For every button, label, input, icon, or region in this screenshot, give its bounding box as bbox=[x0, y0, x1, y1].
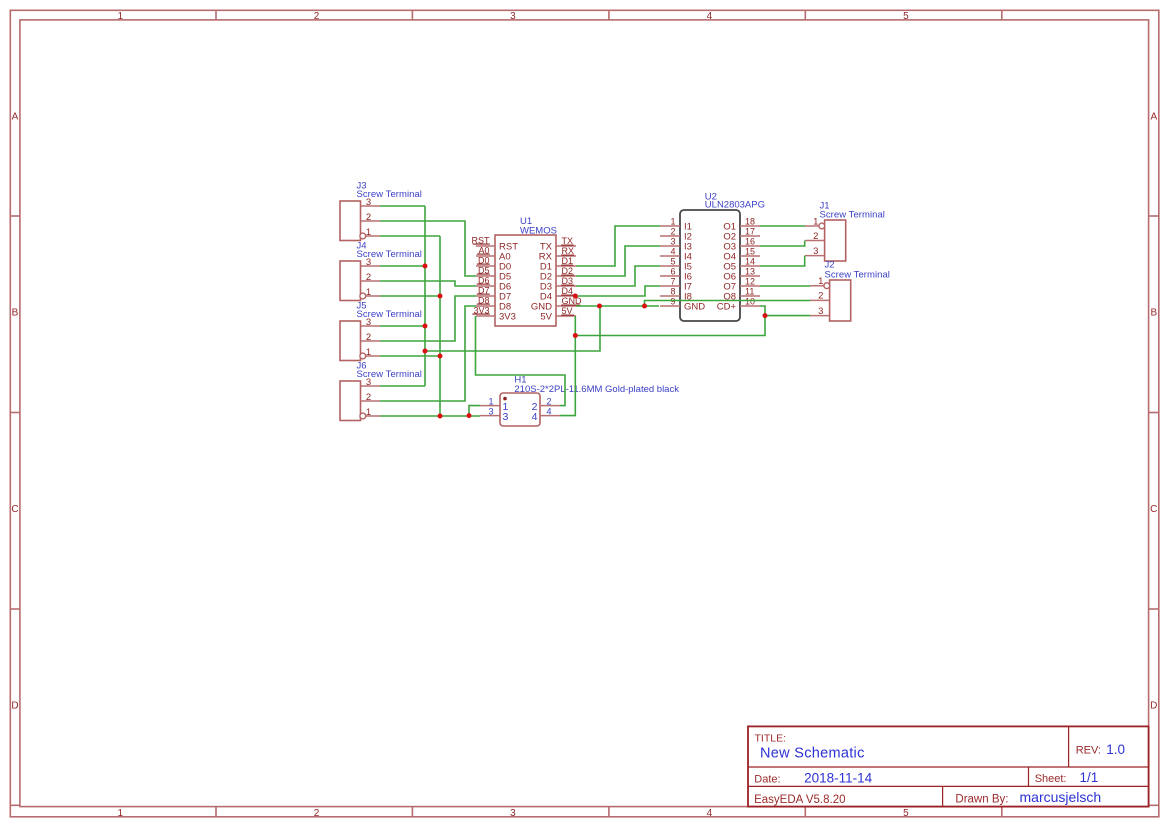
svg-text:WEMOS: WEMOS bbox=[520, 226, 557, 237]
svg-text:1: 1 bbox=[366, 287, 371, 298]
svg-text:REV:: REV: bbox=[1076, 745, 1101, 757]
U2 pin 13 (O6) bbox=[723, 267, 760, 283]
wire J3 pin2 to U1 D5 bbox=[380, 221, 476, 276]
svg-text:3: 3 bbox=[818, 306, 823, 317]
U2 pin 11 (O8) bbox=[723, 287, 760, 303]
J1 value label "Screw Terminal" bbox=[820, 210, 885, 221]
svg-text:C: C bbox=[1150, 504, 1157, 515]
svg-text:Drawn By:: Drawn By: bbox=[955, 793, 1008, 805]
junction J2.2 branch on GND wire bbox=[642, 304, 647, 309]
junction J5.1 on common-1 bus bbox=[438, 354, 443, 359]
svg-text:3V3: 3V3 bbox=[499, 311, 516, 322]
svg-text:1: 1 bbox=[118, 808, 124, 819]
J3 pin 3 bbox=[361, 197, 381, 208]
net label D8 bbox=[477, 295, 490, 305]
svg-text:10: 10 bbox=[745, 297, 755, 307]
svg-text:3: 3 bbox=[510, 11, 516, 22]
svg-text:A: A bbox=[1150, 111, 1157, 122]
svg-text:3: 3 bbox=[510, 808, 516, 819]
U2 pin 4 (I4) bbox=[660, 247, 692, 263]
svg-text:3: 3 bbox=[488, 407, 493, 417]
svg-text:C: C bbox=[11, 504, 18, 515]
wire U2 O3 to J1 pin2 bbox=[760, 241, 805, 247]
svg-text:Date:: Date: bbox=[754, 773, 780, 785]
H1 pin 2 bbox=[532, 397, 560, 413]
svg-text:Screw Terminal: Screw Terminal bbox=[357, 189, 422, 200]
U2 pin 12 (O7) bbox=[723, 277, 760, 293]
U2 pin 3 (I3) bbox=[660, 237, 692, 253]
svg-text:4: 4 bbox=[532, 411, 538, 423]
wire J4 pin2 to U1 D6 bbox=[380, 281, 476, 286]
wire U2 O5 to J1 pin3 bbox=[760, 256, 805, 266]
junction J2.3 branch on 5V riser bbox=[763, 313, 768, 318]
svg-text:2: 2 bbox=[670, 227, 675, 237]
J4 pin 2 bbox=[361, 272, 381, 283]
svg-text:11: 11 bbox=[745, 287, 754, 297]
svg-text:3: 3 bbox=[670, 237, 675, 247]
wire U1 D7 to J5 pin2 bbox=[380, 296, 476, 341]
svg-text:5: 5 bbox=[670, 257, 675, 267]
junction GND rail tap at U1 GND bbox=[597, 304, 602, 309]
net label D5 bbox=[477, 265, 490, 275]
svg-text:GND: GND bbox=[684, 301, 705, 312]
svg-text:D: D bbox=[11, 701, 18, 712]
U2 pin 2 (I2) bbox=[660, 227, 692, 243]
svg-text:2: 2 bbox=[813, 231, 818, 242]
J4 reference designator label bbox=[357, 241, 367, 252]
J4 value label "Screw Terminal" bbox=[357, 249, 422, 260]
svg-text:CD+: CD+ bbox=[717, 301, 737, 312]
wire common-1 vertical bus (J3.1/J4.1/J5.1/J6.1) bbox=[439, 236, 441, 416]
svg-text:5: 5 bbox=[903, 808, 909, 819]
svg-text:1: 1 bbox=[366, 227, 371, 238]
J1 reference designator label bbox=[820, 200, 830, 211]
H1 value label bbox=[514, 384, 679, 395]
svg-text:1/1: 1/1 bbox=[1080, 770, 1099, 785]
wire U1 3V3 to H1 pin2 bbox=[476, 316, 566, 406]
svg-text:A: A bbox=[12, 111, 19, 122]
wire 5V rail to CD+ riser bbox=[575, 306, 765, 336]
wire J5 pin3 branch bbox=[380, 325, 425, 327]
svg-text:B: B bbox=[1150, 308, 1157, 319]
J5 value label "Screw Terminal" bbox=[357, 309, 422, 320]
J6 value label "Screw Terminal" bbox=[357, 369, 422, 380]
junction 5V rail tap bbox=[573, 333, 578, 338]
connector J6 (Screw Terminal) bbox=[340, 361, 422, 421]
J5 pin 2 bbox=[361, 332, 381, 343]
U2 pin 1 (I1) bbox=[660, 217, 692, 233]
wire U2 O1 to J1 pin1 bbox=[760, 225, 805, 227]
J5 pin 3 bbox=[361, 317, 381, 328]
junction GND rail tap on common-3 bus bbox=[423, 349, 428, 354]
svg-text:2: 2 bbox=[366, 332, 371, 343]
svg-text:1: 1 bbox=[118, 11, 124, 22]
J6 pin 3 bbox=[361, 377, 381, 388]
svg-text:12: 12 bbox=[745, 277, 755, 287]
svg-text:1: 1 bbox=[366, 407, 371, 418]
U1 left pin 3V3 bbox=[476, 311, 516, 322]
svg-text:1: 1 bbox=[813, 216, 818, 227]
J2 pin 3 bbox=[810, 306, 830, 317]
J2 pin 1 bbox=[810, 276, 830, 289]
svg-text:8: 8 bbox=[670, 287, 675, 297]
J6 pin 2 bbox=[361, 392, 381, 403]
svg-text:14: 14 bbox=[745, 257, 755, 267]
wire U1 D8 to J6 pin2 bbox=[380, 306, 476, 401]
U2 pin 9 (GND) bbox=[660, 297, 705, 313]
wire U1 D2 to U2 I3 bbox=[576, 246, 660, 276]
net label TX bbox=[561, 236, 574, 246]
svg-text:1: 1 bbox=[366, 347, 371, 358]
U1 left pin D8 bbox=[476, 301, 511, 312]
svg-text:1: 1 bbox=[818, 276, 823, 287]
wire common-3 vertical bus (J3.3/J4.3/J5.3/J6.3) bbox=[424, 206, 426, 386]
U2 pin 7 (I7) bbox=[660, 277, 692, 293]
J3 pin 1 bbox=[360, 227, 380, 239]
junction H1 pin1 jog on common-1 net bbox=[467, 413, 472, 418]
wire H1 pin1 jog to common-1 net bbox=[469, 406, 480, 416]
net label D7 bbox=[477, 285, 490, 295]
wire U1 D1 to U2 I1 bbox=[576, 226, 660, 266]
svg-text:Screw Terminal: Screw Terminal bbox=[825, 269, 890, 280]
H1 pin-1 orientation dot bbox=[503, 397, 507, 401]
junction J4.1 on common-1 bus bbox=[438, 294, 443, 299]
svg-text:4: 4 bbox=[670, 247, 675, 257]
U2 value label "ULN2803APG" bbox=[705, 199, 765, 210]
net label A0 bbox=[477, 245, 490, 255]
net label D0 bbox=[477, 255, 490, 265]
svg-text:3: 3 bbox=[813, 246, 818, 257]
svg-text:2: 2 bbox=[547, 397, 552, 407]
J4 pin 3 bbox=[361, 257, 381, 268]
U1 left pin RST bbox=[476, 241, 518, 252]
wire GND branch to J2 pin2 bbox=[645, 301, 811, 307]
J2 pin 2 bbox=[810, 291, 830, 302]
U1 right pin D4 bbox=[540, 291, 576, 302]
connector J2 (Screw Terminal) bbox=[810, 260, 890, 322]
J3 value label "Screw Terminal" bbox=[357, 189, 422, 200]
U2 pin 18 (O1) bbox=[723, 217, 760, 233]
wire J4 pin3 branch bbox=[380, 265, 425, 267]
wire GND rail from common-3 bus to U1 GND bbox=[425, 306, 600, 351]
svg-text:Screw Terminal: Screw Terminal bbox=[357, 369, 422, 380]
svg-text:4: 4 bbox=[707, 11, 713, 22]
connector J4 (Screw Terminal) bbox=[340, 241, 422, 301]
H1 pin 3 bbox=[480, 407, 509, 423]
wire J6 pin3 branch bbox=[380, 385, 425, 387]
svg-text:6: 6 bbox=[670, 267, 675, 277]
H1 pin 4 bbox=[532, 407, 560, 423]
net label D3 bbox=[561, 276, 574, 286]
U1 reference designator label bbox=[520, 216, 532, 227]
U1 value label "WEMOS" bbox=[520, 226, 557, 237]
svg-text:New Schematic: New Schematic bbox=[760, 746, 865, 762]
U1 left pin D6 bbox=[476, 281, 511, 292]
svg-text:17: 17 bbox=[745, 227, 755, 237]
svg-text:2: 2 bbox=[314, 808, 320, 819]
U2 pin 8 (I8) bbox=[660, 287, 692, 303]
wire 5V branch to J2 pin3 bbox=[765, 315, 810, 317]
svg-text:2: 2 bbox=[818, 291, 823, 302]
H1 pin 1 bbox=[480, 397, 509, 413]
U1 right pin RX bbox=[539, 251, 576, 262]
H1 reference designator label bbox=[514, 374, 526, 385]
net label D6 bbox=[477, 275, 490, 285]
wire U1 5V vertical to H1 pin4 bbox=[560, 316, 575, 416]
net label 3V3 bbox=[472, 305, 490, 315]
net label RST bbox=[472, 235, 491, 245]
svg-text:Screw Terminal: Screw Terminal bbox=[820, 210, 885, 221]
junction J4.3 on common-3 bus bbox=[423, 264, 428, 269]
U2 pin 17 (O2) bbox=[723, 227, 760, 243]
wire J5 pin1 branch bbox=[380, 355, 440, 357]
svg-text:18: 18 bbox=[745, 217, 755, 227]
svg-text:2: 2 bbox=[366, 212, 371, 223]
svg-text:1: 1 bbox=[488, 397, 493, 407]
svg-text:2: 2 bbox=[314, 11, 320, 22]
svg-text:15: 15 bbox=[745, 247, 755, 257]
U1 right pin GND bbox=[531, 301, 576, 312]
wire U1 D3 to U2 I5 bbox=[576, 266, 660, 286]
U1 right pin D3 bbox=[540, 281, 576, 292]
J1 pin 3 bbox=[805, 246, 825, 257]
J1 pin 2 bbox=[805, 231, 825, 242]
J4 pin 1 bbox=[360, 287, 380, 299]
J5 reference designator label bbox=[357, 301, 367, 312]
connector J1 (Screw Terminal) bbox=[805, 200, 885, 261]
net label RX bbox=[561, 246, 574, 256]
svg-text:13: 13 bbox=[745, 267, 755, 277]
wire U1 D4 to U2 I7 bbox=[576, 286, 660, 296]
wire J3 pin3 to common-3 vertical bbox=[380, 205, 425, 207]
J6 reference designator label bbox=[357, 361, 367, 372]
svg-text:Screw Terminal: Screw Terminal bbox=[357, 249, 422, 260]
svg-text:5V: 5V bbox=[540, 311, 552, 322]
svg-text:B: B bbox=[12, 308, 19, 319]
U1 right pin TX bbox=[540, 241, 576, 252]
U1 right pin D1 bbox=[540, 261, 576, 272]
svg-text:Screw Terminal: Screw Terminal bbox=[357, 309, 422, 320]
svg-text:4: 4 bbox=[707, 808, 713, 819]
U2 pin 6 (I6) bbox=[660, 267, 692, 283]
IC U2 (ULN2803APG) bbox=[660, 192, 765, 321]
svg-text:5: 5 bbox=[903, 11, 909, 22]
wire J3 pin1 to common-1 vertical bbox=[380, 235, 440, 237]
svg-text:EasyEDA V5.8.20: EasyEDA V5.8.20 bbox=[754, 794, 845, 806]
J3 pin 2 bbox=[361, 212, 381, 223]
U1 left pin D0 bbox=[476, 261, 511, 272]
U2 pin 14 (O5) bbox=[723, 257, 760, 273]
J2 value label "Screw Terminal" bbox=[825, 269, 890, 280]
svg-text:1.0: 1.0 bbox=[1106, 742, 1125, 757]
svg-text:ULN2803APG: ULN2803APG bbox=[705, 199, 765, 210]
wire J6 pin1 to H1 pin3 bbox=[380, 415, 480, 417]
U2 pin 10 (CD+) bbox=[717, 297, 760, 313]
connector J3 (Screw Terminal) bbox=[340, 181, 422, 241]
net label 5V bbox=[561, 306, 574, 316]
svg-text:TITLE:: TITLE: bbox=[755, 733, 787, 745]
svg-text:9: 9 bbox=[670, 297, 675, 307]
U2 pin 16 (O3) bbox=[723, 237, 760, 253]
J5 pin 1 bbox=[360, 347, 380, 359]
J6 pin 1 bbox=[360, 407, 380, 419]
U1 right pin D2 bbox=[540, 271, 576, 282]
svg-text:marcusjelsch: marcusjelsch bbox=[1020, 789, 1102, 805]
svg-text:2: 2 bbox=[366, 272, 371, 283]
wire U1 GND to U2 GND pin9 bbox=[576, 305, 659, 307]
J1 pin 1 bbox=[805, 216, 825, 229]
junction J5.3 on common-3 bus bbox=[423, 324, 428, 329]
svg-text:210S-2*2PL-11.6MM Gold-plated: 210S-2*2PL-11.6MM Gold-plated black bbox=[514, 384, 679, 395]
wire U2 O7 to J2 pin1 bbox=[760, 285, 810, 287]
net label D2 bbox=[561, 266, 574, 276]
svg-text:Sheet:: Sheet: bbox=[1035, 773, 1067, 785]
header H1 (210S-2*2PL-11.6MM Gold-plated black) bbox=[480, 374, 679, 426]
svg-text:4: 4 bbox=[547, 407, 552, 417]
U1 left pin D7 bbox=[476, 291, 511, 302]
J2 reference designator label bbox=[825, 260, 835, 271]
net label D1 bbox=[561, 256, 573, 266]
svg-text:3: 3 bbox=[503, 411, 509, 423]
svg-text:1: 1 bbox=[670, 217, 675, 227]
U1 left pin D5 bbox=[476, 271, 511, 282]
U2 pin 5 (I5) bbox=[660, 257, 692, 273]
svg-text:2018-11-14: 2018-11-14 bbox=[804, 770, 873, 785]
svg-text:7: 7 bbox=[670, 277, 675, 287]
junction J6.1 on common-1 bus bbox=[438, 414, 443, 419]
connector J5 (Screw Terminal) bbox=[340, 301, 422, 361]
net label GND bbox=[561, 296, 582, 306]
junction at U1 D4 pin bbox=[573, 294, 578, 299]
net label D4 bbox=[561, 286, 574, 296]
U1 left pin A0 bbox=[476, 251, 511, 262]
wire J4 pin1 branch bbox=[380, 295, 440, 297]
U2 pin 15 (O4) bbox=[723, 247, 760, 263]
svg-text:2: 2 bbox=[366, 392, 371, 403]
svg-text:16: 16 bbox=[745, 237, 755, 247]
svg-text:D: D bbox=[1150, 701, 1157, 712]
U1 right pin 5V bbox=[540, 311, 576, 322]
J3 reference designator label bbox=[357, 181, 367, 192]
U2 reference designator label bbox=[705, 192, 717, 203]
IC U1 (WEMOS module) bbox=[472, 216, 583, 326]
